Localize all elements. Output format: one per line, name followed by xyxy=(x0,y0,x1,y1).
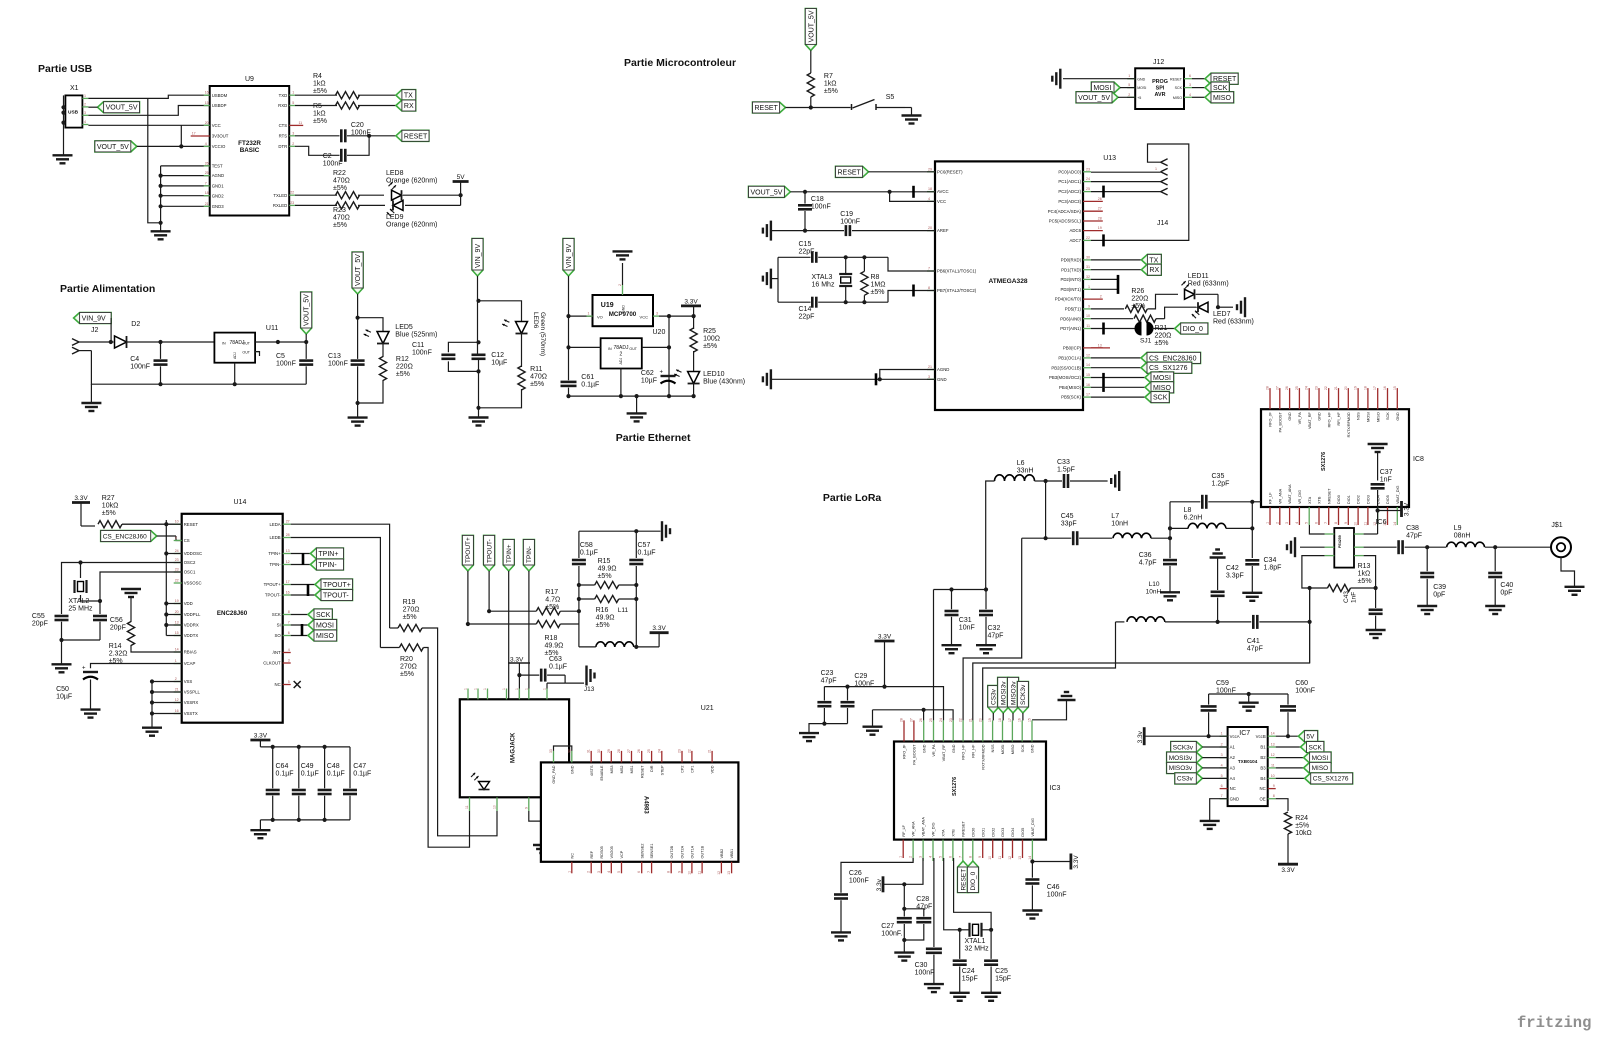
svg-text:2: 2 xyxy=(587,871,591,873)
flag RESET at J12 xyxy=(1192,78,1205,80)
wire PC2 to J14 xyxy=(1091,191,1161,193)
svg-text:11: 11 xyxy=(1363,522,1367,526)
svg-text:VSSTX: VSSTX xyxy=(184,711,198,716)
svg-text:TPOUT+: TPOUT+ xyxy=(264,582,282,587)
svg-text:VDD: VDD xyxy=(184,601,193,606)
svg-text:15pF: 15pF xyxy=(962,976,978,983)
wire X1 shield to ground xyxy=(63,95,65,155)
svg-text:RXTX/RFMOD: RXTX/RFMOD xyxy=(981,744,985,769)
wire xtal bottom xyxy=(778,301,811,303)
svg-text:PC5(ADC5/SCL): PC5(ADC5/SCL) xyxy=(1049,219,1082,224)
svg-text:R7: R7 xyxy=(824,73,833,80)
svg-text:J2: J2 xyxy=(91,327,99,334)
svg-text:RDS05: RDS05 xyxy=(600,846,604,858)
svg-text:29: 29 xyxy=(928,167,932,171)
svg-text:25: 25 xyxy=(1086,187,1090,191)
svg-text:2: 2 xyxy=(618,284,622,286)
svg-text:12: 12 xyxy=(1008,856,1012,860)
svg-text:1: 1 xyxy=(84,94,86,98)
svg-text:2: 2 xyxy=(1275,522,1279,524)
svg-text:7: 7 xyxy=(647,871,651,873)
svg-text:J$1: J$1 xyxy=(1551,522,1562,529)
svg-text:C46: C46 xyxy=(1047,884,1060,891)
svg-text:LEDB: LEDB xyxy=(269,535,280,540)
svg-text:RESET: RESET xyxy=(184,522,199,527)
svg-text:C23: C23 xyxy=(821,670,834,677)
svg-text:PE4259: PE4259 xyxy=(1338,535,1342,548)
svg-text:TPOUT-: TPOUT- xyxy=(323,593,349,600)
svg-text:15: 15 xyxy=(1086,373,1090,377)
svg-text:25: 25 xyxy=(205,171,209,175)
svg-text:3.3V: 3.3V xyxy=(254,733,268,740)
svg-text:VBB1: VBB1 xyxy=(730,849,734,859)
ground at IC6 pin2 xyxy=(1300,546,1325,548)
wire TPIN+ down xyxy=(508,571,510,699)
svg-text:22pF: 22pF xyxy=(799,314,815,321)
svg-text:47pF: 47pF xyxy=(821,678,837,685)
svg-text:VccB: VccB xyxy=(1256,734,1266,739)
svg-text:31: 31 xyxy=(587,749,591,753)
svg-text:8: 8 xyxy=(288,610,290,614)
svg-text:DIO0: DIO0 xyxy=(971,828,975,837)
power 3.3V at L11 xyxy=(650,631,669,634)
flag CS3v vertical xyxy=(988,686,999,713)
svg-text:270Ω: 270Ω xyxy=(400,664,417,671)
svg-text:C13: C13 xyxy=(328,353,341,360)
svg-text:IC3: IC3 xyxy=(1050,785,1061,792)
svg-text:28: 28 xyxy=(1098,217,1102,221)
svg-text:21: 21 xyxy=(205,202,209,206)
svg-text:MISO: MISO xyxy=(1376,412,1380,422)
svg-text:10kΩ: 10kΩ xyxy=(1295,830,1312,837)
svg-text:3: 3 xyxy=(656,312,658,316)
svg-text:STEP: STEP xyxy=(660,765,664,775)
svg-text:R16: R16 xyxy=(596,607,609,614)
svg-text:5: 5 xyxy=(1128,83,1130,87)
svg-text:1kΩ: 1kΩ xyxy=(313,81,326,88)
svg-text:VOUT_5V: VOUT_5V xyxy=(106,105,138,112)
svg-text:NSS: NSS xyxy=(1357,412,1361,420)
svg-text:2.32Ω: 2.32Ω xyxy=(109,651,128,658)
wire U20 out xyxy=(642,346,669,348)
svg-text:VO: VO xyxy=(597,315,603,320)
svg-text:C39: C39 xyxy=(1433,584,1446,591)
svg-text:±5%: ±5% xyxy=(400,671,414,678)
svg-text:CS_SX1276: CS_SX1276 xyxy=(1149,365,1188,372)
svg-text:VCC: VCC xyxy=(640,315,649,320)
svg-text:C36: C36 xyxy=(1139,552,1152,559)
svg-text:MOSI: MOSI xyxy=(316,623,334,630)
wire C57 C58 top rail to ground xyxy=(579,530,661,532)
svg-text:VSG05: VSG05 xyxy=(610,846,614,858)
svg-text:23: 23 xyxy=(949,718,953,722)
ground left of IC3 xyxy=(863,726,883,728)
svg-text:100nF: 100nF xyxy=(915,970,935,977)
flag MOSI at J12 xyxy=(1091,82,1120,93)
svg-text:PC3(ADC3): PC3(ADC3) xyxy=(1058,199,1081,204)
svg-text:L9: L9 xyxy=(1454,525,1462,532)
svg-text:REF: REF xyxy=(590,850,594,858)
wire U19 vo / U20 in xyxy=(569,346,601,348)
svg-text:ATMEGA328: ATMEGA328 xyxy=(988,278,1027,285)
ground under C24 xyxy=(950,992,970,994)
svg-text:VCC: VCC xyxy=(212,123,221,128)
svg-text:OSC1: OSC1 xyxy=(184,570,196,575)
svg-text:+5: +5 xyxy=(1137,96,1141,100)
ground at J$1 xyxy=(1565,586,1585,588)
svg-text:A2: A2 xyxy=(1230,755,1236,760)
wire magjack pin9 to A4983 xyxy=(529,811,542,821)
svg-text:RESET: RESET xyxy=(960,869,967,891)
flag CS_SX1276 at PB2 xyxy=(1091,367,1141,369)
svg-text:1: 1 xyxy=(1266,522,1270,524)
svg-text:U19: U19 xyxy=(601,302,614,309)
svg-text:19: 19 xyxy=(988,718,992,722)
svg-text:7: 7 xyxy=(958,856,962,858)
svg-text:SENSE1: SENSE1 xyxy=(650,844,654,859)
svg-text:9: 9 xyxy=(978,856,982,858)
ground under C12 xyxy=(478,408,480,418)
svg-text:±5%: ±5% xyxy=(598,573,612,580)
svg-text:R25: R25 xyxy=(703,328,716,335)
svg-text:TX: TX xyxy=(404,93,413,100)
svg-text:C61: C61 xyxy=(581,374,594,381)
svg-text:LED6: LED6 xyxy=(532,312,539,329)
wire L6 right node xyxy=(1035,480,1046,482)
svg-text:VBAT_ANA: VBAT_ANA xyxy=(922,817,926,837)
wire RXTX RFMOD route xyxy=(983,622,1116,721)
svg-text:GND: GND xyxy=(1396,412,1400,421)
svg-text:3.3V: 3.3V xyxy=(684,298,698,305)
svg-text:L10: L10 xyxy=(1149,581,1160,588)
svg-text:6: 6 xyxy=(1315,522,1319,524)
svg-text:LED9: LED9 xyxy=(386,214,404,221)
wire ADC7 to J14 xyxy=(1102,234,1105,246)
svg-text:C5: C5 xyxy=(276,353,285,360)
svg-text:Partie USB: Partie USB xyxy=(38,63,93,75)
wire VCC branch xyxy=(890,192,935,202)
svg-text:2: 2 xyxy=(175,677,177,681)
ground under C46 xyxy=(1022,909,1042,911)
svg-text:26: 26 xyxy=(1285,386,1289,390)
svg-text:CS: CS xyxy=(184,538,190,543)
wire to PB7 xyxy=(888,291,935,303)
svg-text:4: 4 xyxy=(929,856,933,858)
svg-text:B4: B4 xyxy=(1260,776,1266,781)
svg-text:ADJ: ADJ xyxy=(233,352,237,359)
svg-text:PA_BOOST: PA_BOOST xyxy=(913,744,917,765)
svg-text:27: 27 xyxy=(909,718,913,722)
wire TEST AGND GND bus xyxy=(160,166,162,223)
wire J$1 shield to ground xyxy=(1561,557,1575,586)
svg-text:4: 4 xyxy=(1189,93,1191,97)
svg-text:DIO0: DIO0 xyxy=(1337,495,1341,504)
ground above C37 xyxy=(1368,443,1388,445)
svg-text:26: 26 xyxy=(637,749,641,753)
svg-text:MAGJACK: MAGJACK xyxy=(511,732,517,763)
svg-text:0.1µF: 0.1µF xyxy=(549,664,567,671)
ground under C39 xyxy=(1417,605,1437,607)
svg-text:±5%: ±5% xyxy=(1358,578,1372,585)
inductor L11 xyxy=(596,642,634,647)
svg-text:15: 15 xyxy=(175,631,179,635)
svg-text:R22: R22 xyxy=(333,170,346,177)
svg-text:VCCIO: VCCIO xyxy=(212,144,226,149)
wire decoupling bottom rail xyxy=(260,819,350,821)
svg-text:VR_ANA: VR_ANA xyxy=(912,821,916,837)
svg-text:OUT1B: OUT1B xyxy=(701,845,705,858)
svg-text:Partie LoRa: Partie LoRa xyxy=(823,492,882,504)
svg-text:PB5(SCK): PB5(SCK) xyxy=(1061,395,1081,400)
svg-text:Partie Ethernet: Partie Ethernet xyxy=(616,432,691,444)
svg-text:C25: C25 xyxy=(995,968,1008,975)
svg-text:C57: C57 xyxy=(638,542,651,549)
svg-text:15: 15 xyxy=(1393,386,1397,390)
svg-text:C11: C11 xyxy=(412,342,424,349)
svg-text:2: 2 xyxy=(909,856,913,858)
wire XTA to IC6 pin1 xyxy=(1309,525,1324,534)
svg-text:±5%: ±5% xyxy=(396,371,410,378)
svg-text:MISO: MISO xyxy=(1173,96,1182,100)
svg-text:2: 2 xyxy=(1100,295,1102,299)
svg-text:A3: A3 xyxy=(1230,766,1236,771)
svg-text:1: 1 xyxy=(524,688,528,690)
svg-text:2: 2 xyxy=(620,352,623,358)
svg-text:C38: C38 xyxy=(1406,525,1419,532)
svg-text:RX: RX xyxy=(1149,267,1159,274)
svg-text:PB4(MISO): PB4(MISO) xyxy=(1059,385,1082,390)
svg-text:VOUT_5V: VOUT_5V xyxy=(304,294,311,326)
flag TPOUT+ vertical xyxy=(462,535,473,571)
svg-text:IN: IN xyxy=(608,347,612,351)
svg-text:VCP: VCP xyxy=(620,850,624,858)
svg-text:R15: R15 xyxy=(598,558,611,565)
svg-text:MOSI: MOSI xyxy=(1312,755,1329,762)
svg-text:BASIC: BASIC xyxy=(240,147,260,154)
svg-text:SCK: SCK xyxy=(1386,412,1390,420)
svg-text:R5: R5 xyxy=(313,103,322,110)
svg-text:SCK: SCK xyxy=(1021,744,1025,752)
svg-text:9: 9 xyxy=(678,871,682,873)
svg-text:PB1(OC1A): PB1(OC1A) xyxy=(1058,356,1081,361)
svg-text:IC6: IC6 xyxy=(1376,519,1387,526)
svg-text:C28: C28 xyxy=(916,896,929,903)
wire RFI_HF route xyxy=(973,588,1310,720)
svg-text:100nF: 100nF xyxy=(854,681,874,688)
ground decoupling xyxy=(250,829,270,831)
svg-text:SPI: SPI xyxy=(1156,86,1165,92)
svg-text:0pF: 0pF xyxy=(1500,590,1512,597)
svg-text:11: 11 xyxy=(998,856,1002,860)
svg-text:CS_ENC28J60: CS_ENC28J60 xyxy=(103,533,147,540)
svg-text:Partie Alimentation: Partie Alimentation xyxy=(60,283,155,295)
svg-text:PC1(ADC1): PC1(ADC1) xyxy=(1058,179,1081,184)
svg-text:6: 6 xyxy=(1221,784,1223,788)
svg-text:19: 19 xyxy=(175,599,179,603)
power 3.3V decoupling rail xyxy=(250,739,270,742)
svg-text:NC: NC xyxy=(1259,786,1265,791)
svg-text:RFO_HF: RFO_HF xyxy=(962,744,966,760)
svg-text:13: 13 xyxy=(286,549,290,553)
svg-text:3V3OUT: 3V3OUT xyxy=(212,134,229,139)
svg-text:L11: L11 xyxy=(618,607,629,614)
wire VR_PA riser xyxy=(933,590,935,721)
wire AVCC xyxy=(790,191,935,193)
svg-text:DIR: DIR xyxy=(650,765,654,772)
svg-text:29: 29 xyxy=(607,749,611,753)
svg-text:2: 2 xyxy=(1221,743,1223,747)
svg-text:25: 25 xyxy=(1295,386,1299,390)
svg-text:16 Mhz: 16 Mhz xyxy=(812,282,835,289)
svg-text:27: 27 xyxy=(1098,207,1102,211)
svg-text:RXD: RXD xyxy=(278,103,287,108)
svg-text:AGND: AGND xyxy=(212,173,224,178)
svg-text:ENC28J60: ENC28J60 xyxy=(217,610,248,617)
svg-text:100nF: 100nF xyxy=(849,878,869,885)
wire LEDB route xyxy=(291,538,381,648)
svg-text:XTA: XTA xyxy=(1308,496,1312,504)
svg-text:TPOUT+: TPOUT+ xyxy=(323,582,351,589)
wire 3.3v to VccA xyxy=(1144,735,1227,737)
flag VOUT_5V to VCCIO xyxy=(95,141,137,152)
ground under C55 xyxy=(52,663,72,665)
svg-text:24: 24 xyxy=(1086,177,1090,181)
svg-text:22: 22 xyxy=(1086,236,1090,240)
svg-text:10µF: 10µF xyxy=(641,378,657,385)
svg-text:R12: R12 xyxy=(396,356,409,363)
svg-text:VBAT_DIG: VBAT_DIG xyxy=(1396,485,1400,504)
svg-text:SCK3v: SCK3v xyxy=(1020,684,1027,705)
svg-text:RF_LF: RF_LF xyxy=(1269,492,1273,504)
svg-text:8: 8 xyxy=(1334,522,1338,524)
svg-text:16: 16 xyxy=(1018,718,1022,722)
flag MOSI3v at A2 xyxy=(1167,752,1203,763)
svg-text:5: 5 xyxy=(1305,522,1309,524)
upside down ground at IC3 xyxy=(1058,699,1076,701)
svg-text:VBAT_RF: VBAT_RF xyxy=(1308,412,1312,429)
svg-text:GND3: GND3 xyxy=(212,204,225,209)
svg-text:28: 28 xyxy=(1266,386,1270,390)
wire LEDA route xyxy=(291,524,390,628)
svg-text:9: 9 xyxy=(1344,522,1348,524)
svg-text:10nH: 10nH xyxy=(1146,589,1162,596)
svg-text:28: 28 xyxy=(900,718,904,722)
svg-text:USB: USB xyxy=(68,110,79,116)
svg-text:C50: C50 xyxy=(56,686,69,693)
flag CS_ENC28J60 at PB1 xyxy=(1091,357,1141,359)
svg-text:1.2pF: 1.2pF xyxy=(1212,481,1230,488)
svg-text:3.3V: 3.3V xyxy=(1404,502,1411,516)
wire VIN to diode xyxy=(110,318,112,342)
svg-text:OUT: OUT xyxy=(629,347,637,351)
svg-text:33pF: 33pF xyxy=(1061,521,1077,528)
wire xtal left vertical xyxy=(777,257,779,302)
svg-text:22: 22 xyxy=(1324,386,1328,390)
svg-text:VOUT_5V: VOUT_5V xyxy=(808,10,815,42)
svg-text:12: 12 xyxy=(1086,353,1090,357)
wire TPIN- down xyxy=(528,571,530,699)
svg-text:13: 13 xyxy=(727,871,731,875)
svg-text:C32: C32 xyxy=(988,625,1001,632)
svg-text:0.1µF: 0.1µF xyxy=(353,771,371,778)
svg-text:7: 7 xyxy=(1324,522,1328,524)
svg-text:22: 22 xyxy=(175,579,179,583)
svg-text:TPIN-: TPIN- xyxy=(269,562,281,567)
svg-text:C48: C48 xyxy=(327,763,340,770)
svg-text:C40: C40 xyxy=(1500,582,1513,589)
svg-text:/INT: /INT xyxy=(273,650,281,655)
svg-text:TXD: TXD xyxy=(279,93,288,98)
flag MOSI at B2 xyxy=(1276,757,1304,759)
svg-text:1: 1 xyxy=(515,688,519,690)
svg-text:6: 6 xyxy=(288,631,290,635)
power 3.3V at C29 xyxy=(875,640,895,643)
svg-text:NRESET: NRESET xyxy=(961,821,965,837)
svg-text:24: 24 xyxy=(175,549,179,553)
svg-text:8: 8 xyxy=(1273,794,1275,798)
svg-text:20: 20 xyxy=(1344,386,1348,390)
svg-text:R8: R8 xyxy=(871,274,880,281)
svg-text:J12: J12 xyxy=(1153,59,1164,66)
svg-text:SCK: SCK xyxy=(1309,744,1323,751)
svg-text:DIO5: DIO5 xyxy=(1021,828,1025,837)
svg-text:A1: A1 xyxy=(1230,745,1236,750)
ground under U20 xyxy=(636,396,638,413)
svg-text:5: 5 xyxy=(1221,774,1223,778)
wire U20 adj down xyxy=(620,369,622,397)
svg-text:SENSE2: SENSE2 xyxy=(640,844,644,859)
wire magjack gnd pins xyxy=(554,746,572,751)
svg-text:100nF: 100nF xyxy=(412,350,432,357)
svg-text:±5%: ±5% xyxy=(1295,823,1309,830)
svg-text:TXB0104: TXB0104 xyxy=(1238,759,1258,764)
ground under C43 xyxy=(1366,629,1386,631)
power 3.3v bar left of IC7 xyxy=(1143,727,1146,745)
flag CS3v at A4 xyxy=(1175,773,1202,784)
svg-text:20: 20 xyxy=(175,610,179,614)
svg-text:1: 1 xyxy=(292,91,294,95)
svg-text:1: 1 xyxy=(1155,167,1157,171)
svg-text:VSSOSC: VSSOSC xyxy=(184,581,202,586)
svg-text:Red (633nm): Red (633nm) xyxy=(1188,281,1229,288)
svg-text:5V: 5V xyxy=(1306,734,1315,741)
svg-text:49.9Ω: 49.9Ω xyxy=(596,615,615,622)
svg-text:8: 8 xyxy=(667,871,671,873)
svg-text:DIO5: DIO5 xyxy=(1386,495,1390,504)
svg-text:VBAT_DIG: VBAT_DIG xyxy=(1031,818,1035,837)
svg-text:A4: A4 xyxy=(1230,776,1236,781)
svg-text:FT232R: FT232R xyxy=(238,140,261,147)
svg-text:OUT2B: OUT2B xyxy=(670,845,674,858)
svg-text:470Ω: 470Ω xyxy=(333,178,350,185)
ground under C26 xyxy=(831,931,851,933)
svg-text:7: 7 xyxy=(1221,794,1223,798)
svg-text:C12: C12 xyxy=(491,352,504,359)
svg-text:14: 14 xyxy=(175,648,179,652)
svg-text:MISO: MISO xyxy=(1153,385,1171,392)
svg-text:OUT2A: OUT2A xyxy=(681,845,685,858)
wire to IC8 RF_LF xyxy=(1252,501,1261,503)
svg-text:PD4(XCK/T0): PD4(XCK/T0) xyxy=(1055,297,1082,302)
svg-text:±5%: ±5% xyxy=(596,622,610,629)
svg-text:LED10: LED10 xyxy=(703,371,725,378)
svg-text:U9: U9 xyxy=(245,76,254,83)
svg-text:23: 23 xyxy=(678,749,682,753)
svg-text:5: 5 xyxy=(292,101,294,105)
svg-text:VR_PA: VR_PA xyxy=(1298,412,1302,425)
svg-text:MOSI: MOSI xyxy=(1137,86,1146,90)
svg-text:VDDRX: VDDRX xyxy=(184,623,199,628)
